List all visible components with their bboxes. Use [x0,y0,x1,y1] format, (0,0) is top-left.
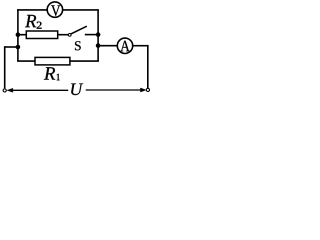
label U [71,84,83,96]
label R1 [44,67,60,80]
arrow U dimension left [7,88,68,92]
wire ammeter to right outer corner [133,45,148,47]
node junction dot ammeter branch [96,43,101,48]
switch S contact circle [68,34,71,37]
label R2 [25,15,42,29]
wire right outer vertical [147,46,149,88]
wire right rail vertical [97,10,99,61]
wire top horizontal [17,9,99,11]
resistor R1 body [35,57,70,65]
node junction dot switch branch [96,32,101,37]
wire left inner rail vertical [17,9,19,61]
terminal left open circle [3,89,6,92]
node junction dot R2 branch [16,32,21,37]
arrow U dimension right [86,88,147,92]
resistor R2 body [26,31,57,39]
wire right rail to ammeter [98,45,117,47]
terminal right open circle [146,88,149,91]
node junction dot source tap [16,45,21,50]
wire R1 branch horizontal from left rail [17,60,35,62]
ammeter A [117,38,132,53]
switch S blade [71,26,87,34]
wire left outer vertical [4,46,6,88]
wire R2 to switch contact [58,34,68,36]
wire left rail to R2 [18,34,27,36]
wire R1 to right rail [70,60,99,62]
wire left tap horizontal [5,46,18,48]
label S [75,41,81,50]
wire switch to right rail [85,34,98,36]
voltmeter V [47,2,62,17]
